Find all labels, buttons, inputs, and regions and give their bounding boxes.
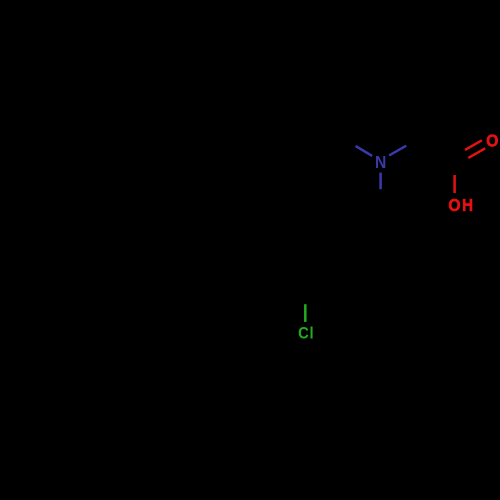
svg-text:l: l [310, 325, 314, 343]
svg-text:N: N [375, 152, 386, 172]
svg-text:O: O [486, 130, 498, 150]
svg-text:H: H [462, 196, 473, 215]
svg-text:O: O [448, 195, 460, 215]
svg-text:C: C [298, 325, 309, 343]
